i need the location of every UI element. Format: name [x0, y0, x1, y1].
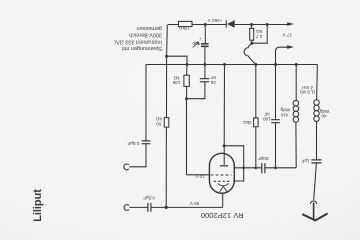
label 135 kOhm (upside down)	[172, 75, 180, 85]
svg-text:0,5µF: 0,5µF	[143, 196, 155, 201]
svg-text:nF: nF	[211, 75, 217, 80]
node junction 2k column	[254, 63, 257, 66]
svg-text:Instrument 333 Ω/V,: Instrument 333 Ω/V,	[113, 38, 162, 44]
label 25 nF (upside down)	[210, 75, 216, 85]
wire rail2 to 25nF	[204, 65, 206, 79]
label 50 kOhm (upside down)	[155, 117, 161, 127]
resistor 2.7 kOhm heater dropper	[251, 25, 253, 29]
node junction 135k top	[186, 63, 189, 66]
svg-text:kΩ: kΩ	[256, 29, 262, 34]
wire cap to phone jack upper	[129, 144, 146, 167]
terminal arrow mains upper	[287, 22, 294, 26]
svg-text:+: +	[199, 36, 202, 41]
svg-text:60 V: 60 V	[189, 201, 199, 206]
wire bus rail2	[146, 64, 317, 66]
wire 1uF down to antenna	[314, 163, 317, 200]
wire grid node down to grid wire	[186, 99, 188, 175]
node junction anode branch	[223, 144, 226, 147]
tube anode plate bar	[220, 165, 228, 167]
wire rail2 left end down	[145, 65, 147, 141]
wire 2.7k bottom node	[251, 40, 253, 43]
wire tube cathode stem down	[222, 193, 224, 207]
svg-text:1µF: 1µF	[301, 158, 309, 163]
wire coil to 1uF	[316, 121, 318, 159]
coil L1 410 turns	[295, 65, 297, 101]
wire 2k bottom to tank wire	[255, 127, 257, 168]
svg-text:4 mH: 4 mH	[302, 85, 313, 90]
node junction jog	[165, 55, 168, 58]
svg-text:Wdg.: Wdg.	[319, 109, 330, 114]
label 100 nF (upside down)	[263, 112, 271, 122]
node junction grid node	[185, 97, 188, 100]
svg-text:15kΩ: 15kΩ	[178, 26, 189, 31]
wire top rail middle segment	[192, 24, 226, 26]
svg-text:Spannungen mit: Spannungen mit	[121, 45, 162, 51]
phone jack upper	[124, 164, 129, 170]
svg-text:kΩ: kΩ	[155, 117, 161, 122]
tube cathode arc	[218, 183, 229, 185]
wire left vertical lower	[165, 127, 167, 207]
wire 135k column top	[186, 65, 188, 76]
node junction diode/cap	[204, 23, 207, 26]
fuse loop to rail2	[244, 43, 256, 64]
wire anode bottom run	[151, 206, 223, 208]
resistor 2 kOhm	[254, 118, 259, 127]
capacitor 50pF plates	[262, 163, 265, 173]
svg-text:nF: nF	[264, 112, 270, 117]
capacitor 25nF plates	[200, 79, 210, 82]
wire tank run from tube	[235, 167, 262, 169]
svg-text:+260 V: +260 V	[207, 18, 223, 23]
svg-text:RV 12P2000: RV 12P2000	[201, 211, 244, 220]
polarity arrow	[193, 42, 199, 47]
svg-text:2kΩ: 2kΩ	[243, 120, 252, 125]
wire 100nF down to tank wire	[275, 123, 277, 168]
wire left vertical upper	[166, 25, 169, 118]
wire 135k bottom to grid node	[186, 86, 188, 98]
terminal arrow mains lower	[287, 45, 294, 49]
phone jack lower	[124, 205, 129, 211]
wire bypass loop	[252, 25, 267, 44]
svg-text:gemessen: gemessen	[137, 25, 162, 31]
svg-text:Liliput: Liliput	[32, 189, 44, 222]
wire heater terminal line	[276, 47, 289, 51]
text measurement note (upside down, 4 lines)	[113, 25, 162, 51]
svg-text:kΩ: kΩ	[173, 75, 179, 80]
label 4mH (upside down)	[300, 85, 316, 95]
label 40 Wdg (upside down)	[319, 109, 330, 119]
capacitor 1uF plates	[311, 160, 321, 163]
node junction bypass loop top	[266, 23, 269, 26]
node junction 2.7k resistor top	[250, 23, 253, 26]
svg-text:50pF: 50pF	[258, 156, 269, 161]
svg-text:17 V: 17 V	[282, 33, 292, 38]
svg-text:0,5µF: 0,5µF	[127, 141, 139, 146]
diode D1 triangle	[227, 20, 235, 27]
antenna symbol inverted	[302, 214, 327, 221]
diode D1 cathode bar	[225, 20, 227, 27]
wire 100nF column upper	[275, 52, 277, 120]
wire jog to rail2	[167, 56, 187, 64]
capacitor 0.5uF upper plates	[142, 141, 151, 144]
antenna mast stub	[313, 203, 315, 220]
wire grid exit left	[187, 174, 210, 176]
node junction 100nF bottom	[274, 166, 277, 169]
wire tube stem column	[223, 65, 225, 165]
wire 25nF down to corner node	[187, 82, 205, 99]
resistor 50 kOhm on left vertical	[164, 118, 169, 128]
svg-text:10 V: 10 V	[194, 174, 204, 179]
capacitor 100nF plates	[271, 120, 280, 123]
node junction filter caps	[203, 63, 206, 66]
node junction tube stem	[223, 63, 226, 66]
node junction 100nF column	[274, 63, 277, 66]
tube RV12P2000 envelope	[209, 153, 234, 193]
node junction 2k bottom	[254, 166, 257, 169]
svg-text:Wdg.: Wdg.	[279, 108, 290, 113]
tube second dashed electrode	[214, 180, 230, 182]
resistor 15 kOhm (box on top rail)	[179, 21, 193, 26]
wire top rail left segment	[168, 24, 179, 26]
node junction below 2.7k	[250, 42, 253, 45]
label 410 Wdg (upside down)	[279, 108, 290, 118]
coil L2 40 turns	[316, 65, 319, 100]
tube grid dashed electrode	[211, 174, 232, 176]
wire 2k column	[255, 65, 257, 118]
svg-text:300V-Bereich: 300V-Bereich	[129, 32, 162, 38]
wire 4uF to rail2	[204, 47, 206, 65]
resistor 135 kOhm	[184, 75, 189, 86]
tube heater	[220, 186, 228, 192]
node junction rectangle cross	[242, 166, 245, 169]
wire anode branch rectangle	[224, 146, 244, 181]
node junction left vertical meets bottom run	[165, 206, 168, 209]
wire top rail right segment	[235, 24, 289, 26]
capacitor 0.5uF lower plates	[148, 203, 151, 212]
wire diode node down to cap	[204, 25, 206, 44]
antenna curl	[310, 201, 316, 204]
node junction left coil top	[295, 63, 298, 66]
capacitor 4uF electrolytic plates	[201, 44, 209, 47]
label 2.7 kOhm (upside down)	[255, 29, 262, 39]
wire tank run to coil	[265, 167, 296, 169]
wire cap to phone jack lower	[129, 206, 148, 208]
